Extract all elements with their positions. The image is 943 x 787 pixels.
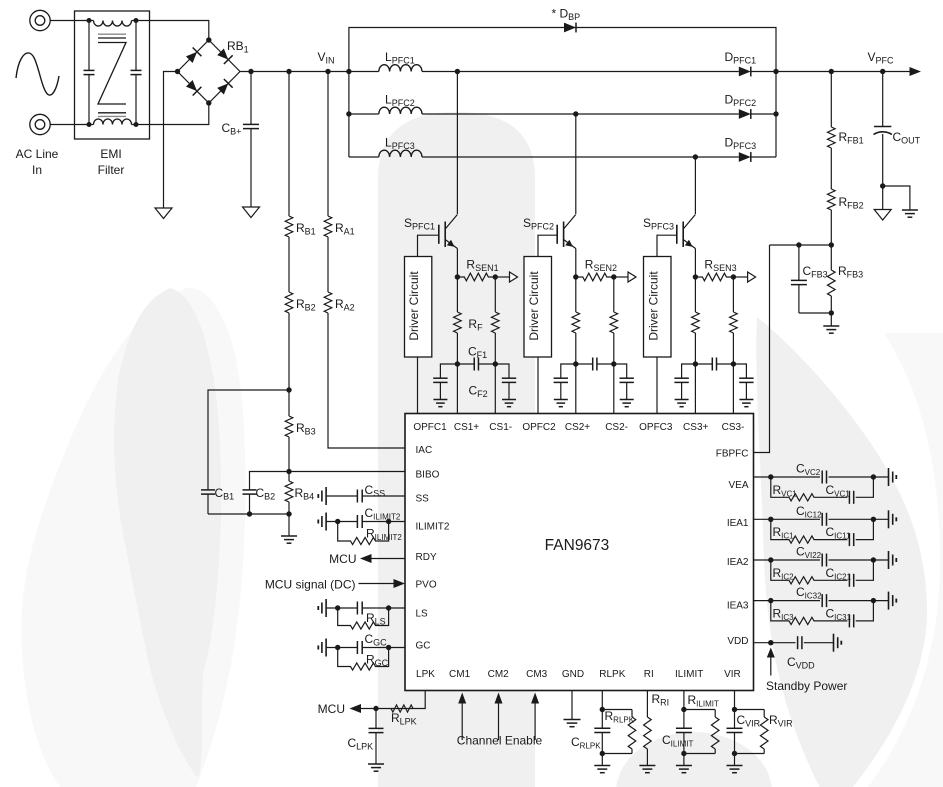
driver circuit box 3 bbox=[644, 257, 672, 358]
wire bbox=[150, 103, 209, 125]
wire CS2- to pin bbox=[613, 364, 615, 414]
transistor SPFC2 bbox=[538, 215, 576, 278]
label CVC1 bbox=[826, 483, 851, 499]
resistor CS1- filter bbox=[492, 277, 500, 364]
ground bbox=[639, 766, 655, 773]
EMI right capacitor bbox=[131, 21, 142, 125]
svg-text:CM2: CM2 bbox=[488, 669, 510, 680]
wire bbox=[288, 437, 290, 472]
IC bottom pin labels bbox=[416, 669, 741, 680]
node bbox=[796, 242, 801, 247]
svg-text:CS3+: CS3+ bbox=[683, 422, 708, 433]
driver circuit box 1 bbox=[405, 257, 432, 358]
node bbox=[693, 154, 698, 159]
wire RLPK pin bbox=[601, 691, 603, 729]
label CIC31 bbox=[826, 606, 852, 622]
arrow channel enable CM2 bbox=[495, 693, 503, 741]
label RVC1 bbox=[773, 483, 798, 499]
label CILIMIT2 bbox=[365, 506, 401, 522]
svg-text:CM3: CM3 bbox=[526, 669, 548, 680]
resistor CS3+ filter bbox=[692, 277, 700, 364]
capacitor CRLPK bbox=[594, 728, 610, 765]
svg-text:VIR: VIR bbox=[724, 669, 741, 680]
svg-text:EMI: EMI bbox=[100, 147, 121, 161]
svg-text:SS: SS bbox=[416, 494, 430, 505]
node bbox=[573, 111, 578, 116]
node bbox=[206, 100, 211, 105]
svg-text:IEA3: IEA3 bbox=[727, 601, 749, 612]
label MCU lpk bbox=[318, 702, 345, 716]
EMI top winding bbox=[75, 21, 150, 27]
wire IEA2 row bbox=[754, 559, 889, 561]
node bbox=[493, 361, 498, 366]
wire bbox=[208, 513, 289, 515]
wire bbox=[561, 364, 576, 378]
capacitor CFB3 bbox=[791, 245, 807, 313]
svg-text:OPFC3: OPFC3 bbox=[639, 422, 673, 433]
wire VIN rail bbox=[240, 71, 349, 73]
node bbox=[134, 18, 139, 23]
watermark swoosh left leaf bbox=[114, 288, 221, 777]
terminal capacitor VEA bbox=[889, 468, 897, 486]
wire bbox=[361, 708, 387, 710]
svg-text:IEA1: IEA1 bbox=[727, 518, 749, 529]
ground bbox=[243, 207, 260, 218]
node bbox=[600, 751, 605, 756]
node bbox=[731, 361, 736, 366]
capacitor CF1 ch2 bbox=[576, 358, 614, 371]
label RILIMIT bbox=[688, 693, 719, 709]
resistor CS2- filter bbox=[610, 277, 618, 364]
IC FAN9673 box bbox=[405, 414, 754, 691]
IC top pin labels bbox=[413, 422, 744, 433]
label CILIMIT bbox=[662, 733, 693, 749]
label Driver Circuit 2 bbox=[527, 271, 541, 341]
node bbox=[693, 274, 698, 279]
svg-text:CS1-: CS1- bbox=[489, 422, 512, 433]
wire bbox=[614, 364, 627, 378]
wire drain S3 bbox=[694, 157, 696, 214]
capacitor CVI22 bbox=[822, 554, 826, 567]
wire bbox=[50, 124, 74, 126]
label LPFC2 bbox=[385, 93, 415, 109]
label CRLPK bbox=[571, 735, 601, 751]
svg-text:CS2+: CS2+ bbox=[565, 422, 590, 433]
capacitor CILIMIT2 network bbox=[318, 513, 405, 531]
resistor RRI bbox=[644, 691, 652, 766]
ground bbox=[502, 400, 516, 407]
node bbox=[732, 751, 737, 756]
ground bbox=[676, 766, 692, 773]
wire bbox=[288, 237, 290, 292]
label VPFC bbox=[868, 50, 895, 66]
label RSEN2 bbox=[585, 258, 617, 274]
arrow LPK to MCU bbox=[350, 704, 362, 713]
watermark swoosh bottom ellipse bbox=[616, 732, 772, 787]
label RFB1 bbox=[839, 130, 864, 146]
wire GND pin bbox=[571, 691, 573, 720]
node bbox=[286, 511, 291, 516]
label RB1 bbox=[227, 39, 249, 55]
node bbox=[693, 361, 698, 366]
node bbox=[206, 37, 211, 42]
label CF2 bbox=[469, 384, 488, 400]
capacitor CVDD bbox=[798, 636, 802, 649]
label SPFC1 bbox=[404, 216, 435, 232]
wire drain S2 bbox=[575, 114, 577, 214]
wire VDD row bbox=[754, 642, 834, 644]
ground bbox=[902, 210, 918, 217]
label RRLPK bbox=[605, 709, 635, 725]
node bbox=[731, 274, 736, 279]
wire FBPFC riser bbox=[754, 245, 770, 453]
open arrow CS2 bbox=[628, 272, 636, 282]
wire bbox=[440, 364, 457, 378]
capacitor ch2 left bbox=[554, 378, 568, 399]
bridge diode D1 bbox=[186, 47, 201, 62]
node bbox=[455, 274, 460, 279]
wire bypass rail bbox=[349, 28, 776, 72]
svg-text:VDD: VDD bbox=[727, 636, 748, 647]
resistor RFB3 bbox=[828, 245, 836, 313]
capacitor CB2 bbox=[243, 487, 257, 514]
node CB+ tap bbox=[248, 69, 253, 74]
label EMI Filter bbox=[98, 147, 125, 177]
label SPFC3 bbox=[643, 216, 674, 232]
label RF bbox=[468, 317, 483, 333]
capacitor LS network bbox=[318, 599, 405, 617]
wire bbox=[150, 21, 209, 41]
terminal capacitor IEA3 bbox=[889, 592, 897, 610]
resistor RIC3 bbox=[771, 601, 817, 625]
node bbox=[768, 474, 773, 479]
arrow PVO bbox=[394, 579, 406, 588]
node bbox=[335, 645, 340, 650]
capacitor CVC2 bbox=[822, 471, 826, 484]
AC terminal top bbox=[30, 10, 50, 30]
node bbox=[611, 361, 616, 366]
svg-text:FBPFC: FBPFC bbox=[716, 449, 749, 460]
AC sine symbol bbox=[16, 53, 59, 95]
label RIC2 bbox=[773, 566, 795, 582]
node bbox=[600, 707, 605, 712]
svg-text:CS2-: CS2- bbox=[605, 422, 628, 433]
capacitor CIC11 bbox=[817, 519, 873, 546]
label CIC32 bbox=[796, 585, 822, 601]
node bbox=[134, 122, 139, 127]
inductor LPFC2 bbox=[379, 107, 422, 114]
label CFB3 bbox=[803, 264, 828, 280]
IC right pin labels bbox=[716, 449, 749, 648]
arrow RDY to MCU bbox=[360, 554, 372, 563]
EMI core Z bbox=[98, 43, 126, 105]
wire PFC row2 bbox=[349, 113, 776, 115]
diode DPFC1 bbox=[739, 67, 751, 77]
resistor RSEN3 bbox=[695, 273, 733, 281]
node bbox=[773, 111, 778, 116]
wire bbox=[733, 364, 746, 378]
resistor RRLPK bbox=[602, 710, 636, 754]
label RIC1 bbox=[773, 525, 795, 541]
resistor RFB2 bbox=[828, 186, 836, 245]
capacitor ch2 right bbox=[620, 378, 634, 399]
node bbox=[768, 517, 773, 522]
svg-text:LS: LS bbox=[416, 609, 429, 620]
wire OPFC1 bbox=[417, 357, 419, 414]
node bbox=[373, 706, 378, 711]
capacitor CF1 ch3 bbox=[695, 358, 733, 371]
ground bbox=[433, 400, 447, 407]
label RFB2 bbox=[839, 195, 864, 211]
arrow channel enable CM3 bbox=[531, 693, 539, 741]
label CVC2 bbox=[796, 462, 821, 478]
svg-text:Standby Power: Standby Power bbox=[766, 679, 847, 693]
wire VPFC rail bbox=[776, 71, 910, 73]
svg-text:OPFC1: OPFC1 bbox=[413, 422, 447, 433]
ground bbox=[281, 536, 297, 543]
resistor RFB1 bbox=[828, 72, 836, 187]
label CIC11 bbox=[826, 525, 852, 541]
transistor SPFC3 bbox=[657, 215, 695, 278]
resistor RSEN2 bbox=[576, 273, 614, 281]
wire bbox=[288, 313, 290, 390]
label RB4 bbox=[295, 486, 315, 502]
label RA2 bbox=[335, 297, 355, 313]
node bbox=[573, 361, 578, 366]
wire CS2+ to pin bbox=[575, 364, 577, 414]
svg-text:GC: GC bbox=[416, 641, 431, 652]
diode DPFC3 bbox=[739, 152, 751, 162]
arrow channel enable CM1 bbox=[458, 693, 466, 741]
svg-text:CS1+: CS1+ bbox=[454, 422, 479, 433]
label MCU signal bbox=[265, 578, 356, 592]
ground bbox=[675, 400, 689, 407]
node bbox=[87, 18, 92, 23]
label CVDD bbox=[787, 655, 815, 671]
resistor RIC2 bbox=[771, 560, 817, 584]
arrow VPFC bbox=[910, 67, 922, 76]
label LPFC1 bbox=[385, 50, 415, 66]
watermark faint right swoosh bbox=[868, 333, 943, 787]
label Driver Circuit 1 bbox=[407, 271, 421, 341]
EMI filter box bbox=[75, 11, 150, 139]
open arrow CS1 bbox=[510, 272, 518, 282]
svg-text:Driver Circuit: Driver Circuit bbox=[407, 271, 421, 341]
node bbox=[768, 598, 773, 603]
capacitor ch1 right bbox=[502, 378, 516, 399]
ground bbox=[739, 400, 753, 407]
label CGC bbox=[365, 632, 388, 648]
svg-text:PVO: PVO bbox=[416, 580, 437, 591]
label RIC3 bbox=[773, 606, 795, 622]
wire bbox=[770, 244, 832, 246]
resistor RB3 bbox=[285, 390, 293, 437]
node bbox=[768, 557, 773, 562]
node bbox=[829, 310, 834, 315]
label CIC12 bbox=[796, 504, 822, 520]
wire LPK bbox=[417, 691, 425, 709]
wire output bus bbox=[775, 72, 777, 158]
ground bbox=[368, 764, 384, 771]
node bbox=[773, 69, 778, 74]
node bbox=[732, 707, 737, 712]
label RLPK bbox=[391, 711, 417, 727]
label DPFC3 bbox=[725, 136, 757, 152]
label DPFC2 bbox=[725, 93, 757, 109]
resistor RB1 bbox=[285, 72, 293, 238]
inductor LPFC3 bbox=[379, 150, 422, 157]
capacitor CVIR bbox=[727, 728, 743, 765]
label Standby Power bbox=[766, 679, 847, 693]
wire PFC row1 bbox=[349, 71, 776, 73]
label RB2 bbox=[296, 297, 316, 313]
label SPFC2 bbox=[523, 216, 554, 232]
wire bbox=[288, 514, 290, 536]
wire bbox=[883, 186, 910, 210]
bridge diode D3 bbox=[186, 80, 201, 95]
label AC Line In bbox=[16, 147, 59, 177]
resistor RA2 bbox=[324, 292, 332, 313]
wire IEA3 row bbox=[754, 600, 889, 602]
resistor RVIR bbox=[735, 710, 769, 754]
wire BIBO line bbox=[289, 471, 405, 473]
label COUT bbox=[893, 130, 921, 146]
node bbox=[573, 274, 578, 279]
label LPFC3 bbox=[385, 136, 415, 152]
resistor RILIMIT2 bbox=[338, 522, 389, 545]
label VIN bbox=[318, 50, 335, 66]
svg-text:Filter: Filter bbox=[98, 163, 125, 177]
arrow standby power bbox=[767, 648, 775, 676]
svg-text:MCU: MCU bbox=[318, 702, 345, 716]
node bbox=[335, 605, 340, 610]
bridge diode D2 bbox=[217, 49, 232, 64]
wire bbox=[495, 364, 509, 378]
ground bbox=[620, 400, 634, 407]
terminal capacitor VDD bbox=[834, 634, 842, 652]
svg-text:AC Line: AC Line bbox=[16, 147, 59, 161]
ground bbox=[874, 210, 891, 221]
svg-text:RI: RI bbox=[644, 669, 654, 680]
EMI core bottom bars bbox=[98, 113, 126, 117]
resistor CS2+ filter bbox=[572, 277, 580, 364]
node bbox=[386, 645, 391, 650]
svg-text:OPFC2: OPFC2 bbox=[522, 422, 556, 433]
svg-text:VEA: VEA bbox=[728, 480, 748, 491]
node bbox=[286, 387, 291, 392]
label FAN9673 bbox=[545, 537, 610, 554]
wire VEA row bbox=[754, 476, 889, 478]
node bbox=[386, 605, 391, 610]
capacitor CB1 bbox=[201, 487, 215, 514]
wire IEA1 row bbox=[754, 518, 889, 520]
svg-text:IEA2: IEA2 bbox=[727, 557, 749, 568]
watermark swoosh center band bbox=[378, 112, 535, 787]
wire bbox=[327, 237, 329, 292]
capacitor ch1 left bbox=[433, 378, 447, 399]
inductor LPFC1 bbox=[379, 65, 422, 72]
svg-text:CM1: CM1 bbox=[449, 669, 471, 680]
capacitor COUT bbox=[874, 72, 892, 187]
label RB1 bbox=[296, 221, 316, 237]
node bbox=[455, 69, 460, 74]
resistor RB2 bbox=[285, 292, 293, 313]
wire CB2 branch bbox=[250, 472, 290, 488]
ground bbox=[564, 720, 581, 727]
wire bbox=[50, 20, 74, 22]
svg-text:Driver Circuit: Driver Circuit bbox=[527, 271, 541, 341]
diode DBP bbox=[564, 23, 576, 33]
wire OPFC2 bbox=[537, 357, 539, 414]
node bbox=[335, 519, 340, 524]
driver circuit box 2 bbox=[524, 257, 552, 358]
node RB1 tap bbox=[286, 69, 291, 74]
label Channel Enable bbox=[457, 734, 543, 748]
label CB+ bbox=[222, 121, 242, 137]
capacitor CIC21 bbox=[817, 560, 873, 587]
label CVIR bbox=[737, 713, 761, 729]
capacitor CILIMIT bbox=[676, 728, 692, 765]
terminal capacitor IEA1 bbox=[889, 510, 897, 528]
wire OPFC3 bbox=[656, 357, 658, 414]
svg-text:LPK: LPK bbox=[416, 669, 435, 680]
label RGC bbox=[366, 653, 389, 669]
bridge diode D4 bbox=[217, 79, 232, 94]
ground bbox=[554, 400, 568, 407]
resistor RIC1 bbox=[771, 519, 817, 543]
resistor RVC1 bbox=[771, 477, 817, 501]
wire PVO bbox=[359, 583, 395, 585]
label RRI bbox=[652, 692, 670, 708]
svg-text:MCU signal (DC): MCU signal (DC) bbox=[265, 578, 356, 592]
resistor CS3- filter bbox=[730, 277, 738, 364]
wire ILIMIT pin bbox=[683, 691, 685, 729]
EMI core top bars bbox=[98, 34, 126, 38]
wire bbox=[799, 312, 831, 314]
node bbox=[871, 598, 876, 603]
wire PFC row3 bbox=[349, 156, 776, 158]
svg-text:MCU: MCU bbox=[329, 552, 356, 566]
resistor RLS bbox=[338, 608, 389, 629]
svg-text:ILIMIT2: ILIMIT2 bbox=[416, 522, 450, 533]
svg-text:FAN9673: FAN9673 bbox=[545, 537, 610, 554]
capacitor CLPK bbox=[369, 709, 384, 765]
node bbox=[871, 474, 876, 479]
node RA1 tap bbox=[325, 69, 330, 74]
node bbox=[871, 517, 876, 522]
label CLPK bbox=[348, 736, 374, 752]
svg-text:Channel Enable: Channel Enable bbox=[457, 734, 543, 748]
resistor RSEN1 bbox=[457, 273, 495, 281]
resistor RLPK bbox=[387, 705, 417, 712]
node bbox=[493, 274, 498, 279]
capacitor CIC12 bbox=[822, 513, 826, 526]
svg-text:RDY: RDY bbox=[416, 552, 437, 563]
node bbox=[880, 183, 885, 188]
node bbox=[871, 557, 876, 562]
node bbox=[247, 511, 252, 516]
resistor RB4 bbox=[285, 472, 293, 503]
wire RDY bbox=[372, 558, 406, 560]
AC terminal bottom bbox=[30, 114, 50, 134]
svg-text:IAC: IAC bbox=[416, 445, 433, 456]
node bbox=[455, 361, 460, 366]
resistor CS1+ filter bbox=[454, 277, 462, 364]
capacitor CB+ bbox=[243, 72, 259, 208]
node bbox=[286, 469, 291, 474]
node bbox=[175, 69, 180, 74]
transistor SPFC1 bbox=[418, 215, 458, 278]
